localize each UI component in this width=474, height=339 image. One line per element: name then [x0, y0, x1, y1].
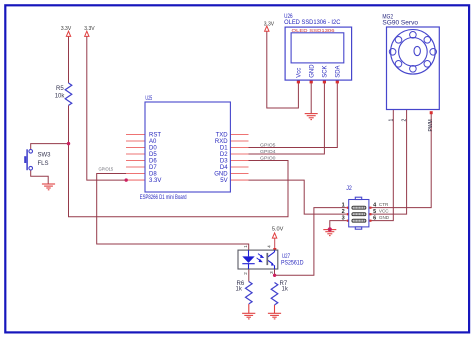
svg-text:GPIO5: GPIO5 [260, 142, 276, 148]
svg-text:3.3V: 3.3V [61, 26, 72, 32]
svg-text:GND: GND [379, 215, 390, 220]
svg-text:1k: 1k [282, 287, 289, 293]
svg-text:D7: D7 [149, 165, 157, 171]
svg-text:TXD: TXD [216, 133, 229, 139]
svg-text:2: 2 [342, 209, 345, 215]
svg-text:Vcc: Vcc [297, 68, 303, 78]
svg-text:PWM: PWM [428, 119, 434, 131]
svg-text:R5: R5 [56, 86, 64, 92]
svg-text:D4: D4 [220, 165, 228, 171]
svg-text:3.3V: 3.3V [264, 21, 275, 27]
svg-text:ESP8266 D1 mini Board: ESP8266 D1 mini Board [140, 194, 187, 201]
svg-text:SCK: SCK [323, 65, 329, 77]
svg-text:1k: 1k [236, 286, 243, 292]
svg-text:OLED SSD1306: OLED SSD1306 [292, 28, 336, 33]
svg-text:RST: RST [149, 133, 161, 139]
svg-text:3.3V: 3.3V [149, 178, 161, 184]
svg-text:D6: D6 [149, 159, 157, 165]
svg-text:GND: GND [309, 64, 315, 78]
svg-text:D0: D0 [149, 146, 157, 152]
svg-text:6: 6 [373, 215, 376, 221]
svg-text:5: 5 [373, 209, 376, 215]
svg-text:VCC: VCC [379, 209, 389, 214]
svg-text:D5: D5 [149, 152, 157, 158]
svg-text:MG2: MG2 [382, 14, 393, 20]
svg-text:3.3V: 3.3V [84, 26, 95, 32]
svg-text:U25: U25 [145, 96, 152, 102]
svg-text:5V: 5V [220, 178, 227, 184]
svg-text:3: 3 [342, 215, 345, 221]
svg-text:1: 1 [388, 119, 394, 122]
svg-text:2: 2 [402, 119, 408, 122]
svg-text:10k: 10k [55, 93, 66, 99]
svg-text:U27: U27 [282, 254, 290, 260]
svg-text:J2: J2 [346, 186, 352, 192]
svg-text:D3: D3 [220, 159, 228, 165]
svg-text:D2: D2 [220, 152, 228, 158]
svg-text:FLS: FLS [38, 161, 49, 167]
svg-text:D8: D8 [149, 172, 157, 178]
svg-text:GND: GND [214, 172, 228, 178]
svg-text:RXD: RXD [215, 139, 228, 145]
svg-text:SW3: SW3 [38, 153, 52, 159]
svg-text:OLED SSD1306 - I2C: OLED SSD1306 - I2C [284, 20, 341, 26]
svg-text:D1: D1 [220, 146, 228, 152]
svg-text:5.0V: 5.0V [272, 227, 284, 233]
svg-text:GPIO15: GPIO15 [99, 167, 114, 173]
svg-text:1: 1 [342, 202, 345, 208]
svg-text:CTR: CTR [379, 202, 389, 207]
svg-text:SDA: SDA [336, 65, 342, 77]
svg-text:GPIO4: GPIO4 [260, 149, 276, 155]
svg-text:SG90 Servo: SG90 Servo [382, 21, 418, 27]
svg-text:GPIO0: GPIO0 [260, 155, 276, 161]
svg-text:PS2561D: PS2561D [281, 261, 304, 267]
svg-text:A0: A0 [149, 139, 157, 145]
